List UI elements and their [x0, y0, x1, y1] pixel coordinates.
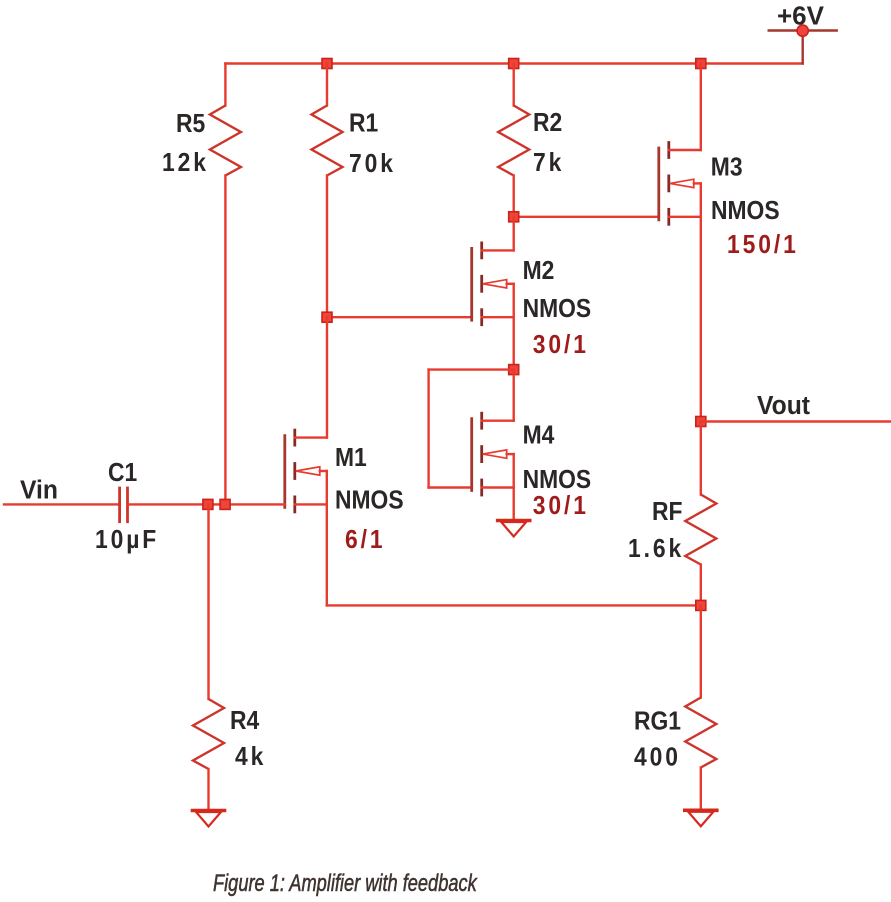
- wire +6V stub: [802, 31, 804, 64]
- wire M2 source: [513, 284, 515, 370]
- wire M4 gate loop top: [429, 368, 514, 370]
- resistor R5: [210, 106, 241, 176]
- label M1: [335, 444, 367, 473]
- node feedback junction: [696, 600, 706, 610]
- wire R5 bottom: [224, 176, 226, 505]
- value M1 6/1: [345, 526, 385, 555]
- resistor R4: [193, 699, 224, 769]
- svg-text:4k: 4k: [235, 743, 266, 772]
- svg-text:RG1: RG1: [634, 707, 681, 736]
- svg-text:400: 400: [634, 743, 681, 772]
- transistor M1: [285, 430, 327, 512]
- value R1 70k: [349, 150, 396, 179]
- svg-text:1.6k: 1.6k: [628, 535, 684, 564]
- node rail-R1 junction: [322, 59, 332, 69]
- value M3 150/1: [727, 231, 799, 260]
- value R4 4k: [235, 743, 266, 772]
- wire M4 drain: [513, 370, 515, 421]
- wire M4 gate loop left: [427, 370, 429, 488]
- svg-text:7k: 7k: [533, 149, 564, 178]
- svg-text:Vin: Vin: [20, 476, 58, 505]
- resistor RF: [685, 495, 716, 565]
- node rail-R2 junction: [509, 59, 519, 69]
- wire R4 top: [207, 504, 209, 699]
- value R5 12k: [162, 149, 209, 178]
- svg-text:C1: C1: [108, 459, 137, 488]
- svg-text:30/1: 30/1: [533, 331, 589, 360]
- wire RG1 top: [700, 605, 702, 697]
- node Vout junction: [696, 417, 706, 427]
- node M2-M4 junction: [509, 365, 519, 375]
- node Vin-R4 junction: [203, 499, 213, 509]
- node R2-M2 junction: [509, 212, 519, 222]
- label M3: [711, 153, 743, 182]
- value M4 30/1: [533, 492, 589, 521]
- svg-text:NMOS: NMOS: [711, 197, 780, 226]
- label Vin: [20, 476, 58, 505]
- ground M4: [498, 521, 530, 537]
- label M2 NMOS: [523, 295, 592, 324]
- label Vout: [757, 391, 811, 420]
- svg-text:+6V: +6V: [777, 1, 825, 31]
- value R2 7k: [533, 149, 564, 178]
- wire M4 gate loop bottom: [429, 486, 472, 488]
- label M2: [523, 257, 555, 286]
- wire Vin: [4, 503, 120, 505]
- label M4 NMOS: [523, 466, 592, 495]
- svg-text:RF: RF: [652, 498, 683, 527]
- wire M1 source to feedback: [327, 604, 701, 606]
- svg-text:6/1: 6/1: [345, 526, 385, 555]
- svg-text:R1: R1: [349, 109, 378, 138]
- resistor R1: [312, 106, 343, 176]
- label RG1: [634, 707, 681, 736]
- svg-text:Vout: Vout: [757, 391, 811, 420]
- transistor M2: [472, 243, 514, 325]
- label RF: [652, 498, 683, 527]
- power +6V bar: [769, 29, 837, 32]
- wire RG1 bottom: [700, 768, 702, 811]
- value M2 30/1: [533, 331, 589, 360]
- node +6V dot: [797, 25, 808, 36]
- svg-text:NMOS: NMOS: [523, 466, 592, 495]
- svg-text:150/1: 150/1: [727, 231, 799, 260]
- ground RG1: [685, 810, 717, 826]
- wire R1 bottom: [326, 176, 328, 318]
- label R1: [349, 109, 378, 138]
- resistor R2: [498, 106, 529, 176]
- wire R5 top: [224, 64, 226, 106]
- wire M3 drain: [700, 64, 702, 151]
- wire RF bottom: [700, 565, 702, 606]
- transistor M4: [472, 413, 514, 495]
- wire M4 source: [513, 454, 515, 520]
- label M1 NMOS: [335, 486, 404, 515]
- wire M1 source: [326, 471, 328, 605]
- caption Figure 1: [213, 870, 478, 897]
- wire R2 top: [513, 64, 515, 106]
- node R1-M1 junction: [322, 312, 332, 322]
- value RF 1.6k: [628, 535, 684, 564]
- label M3 NMOS: [711, 197, 780, 226]
- svg-text:M1: M1: [335, 444, 367, 473]
- wire RF top: [700, 422, 702, 495]
- wire Vout: [701, 420, 891, 422]
- node Vin-R5 junction: [220, 499, 230, 509]
- svg-text:R5: R5: [176, 110, 205, 139]
- value C1 10uF: [95, 526, 159, 555]
- svg-text:R4: R4: [230, 707, 260, 736]
- value RG1 400: [634, 743, 681, 772]
- capacitor C1: [120, 488, 128, 522]
- label C1: [108, 459, 137, 488]
- wire R4 bottom: [207, 769, 209, 811]
- ground R4: [193, 811, 225, 827]
- svg-text:M4: M4: [523, 421, 555, 450]
- transistor M3: [659, 143, 701, 225]
- svg-text:12k: 12k: [162, 149, 209, 178]
- svg-text:30/1: 30/1: [533, 492, 589, 521]
- wire R2 bottom: [513, 176, 515, 217]
- wire M3 gate: [514, 216, 659, 218]
- wire M2 gate: [327, 316, 472, 318]
- wire top supply rail: [225, 62, 802, 64]
- resistor RG1: [685, 698, 716, 768]
- wire M2 drain: [513, 217, 515, 251]
- svg-text:70k: 70k: [349, 150, 396, 179]
- wire M1 drain: [326, 317, 328, 437]
- label M4: [523, 421, 555, 450]
- svg-text:M2: M2: [523, 257, 555, 286]
- label R5: [176, 110, 205, 139]
- svg-text:R2: R2: [533, 109, 562, 138]
- svg-text:10µF: 10µF: [95, 526, 159, 555]
- label +6V: [777, 1, 825, 31]
- wire C1 to M1 gate: [128, 503, 285, 505]
- node rail-M3 junction: [696, 59, 706, 69]
- svg-text:NMOS: NMOS: [335, 486, 404, 515]
- label R2: [533, 109, 562, 138]
- svg-text:M3: M3: [711, 153, 743, 182]
- wire M3 source: [700, 183, 702, 421]
- svg-text:NMOS: NMOS: [523, 295, 592, 324]
- svg-text:Figure 1: Amplifier with feedb: Figure 1: Amplifier with feedback: [213, 870, 478, 897]
- label R4: [230, 707, 260, 736]
- wire R1 top: [326, 64, 328, 106]
